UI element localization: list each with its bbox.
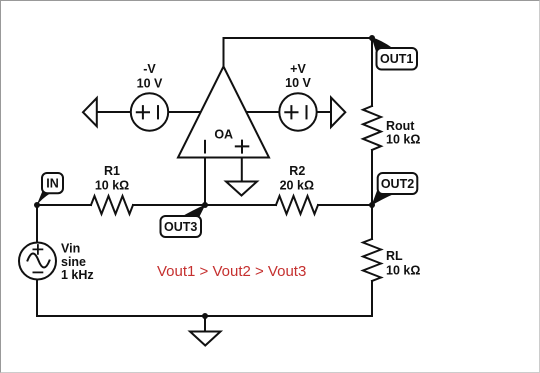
svg-text:10 V: 10 V [137, 77, 163, 91]
wire Rout to OUT2 node [371, 150, 373, 205]
wire Vin bottom lead [36, 280, 38, 317]
flag wedge OUT3 [180, 205, 206, 218]
op-amp OA triangle [178, 67, 269, 158]
label box OUT1 [377, 48, 418, 70]
Vin sine waveform [28, 254, 50, 268]
resistor R1 [91, 196, 133, 214]
resistor R2 [276, 196, 318, 214]
resistor RL [363, 239, 381, 281]
label box IN [42, 173, 63, 193]
label box OUT3 [161, 216, 202, 237]
node IN junction dot [34, 202, 40, 208]
svg-text:sine: sine [61, 255, 86, 269]
svg-text:10 kΩ: 10 kΩ [95, 178, 129, 192]
ground under op-amp [226, 182, 257, 196]
flag wedge OUT1 [372, 37, 395, 55]
Vin minus mark [33, 271, 42, 273]
sine source Vin [19, 243, 56, 280]
node OUT1 junction dot [369, 35, 375, 41]
wire Vin top lead to IN node [36, 205, 38, 243]
resistor Rout [363, 106, 381, 150]
svg-text:OUT1: OUT1 [380, 52, 413, 66]
-V source bar mark [157, 106, 159, 118]
supply arrow -V (left) [83, 98, 97, 126]
svg-text:-V: -V [143, 62, 156, 76]
wire IN node to R1 [37, 204, 91, 206]
wire non-inverting input pin to ground [241, 158, 243, 182]
svg-text:RL: RL [386, 249, 403, 263]
svg-text:Vout1 > Vout2 > Vout3: Vout1 > Vout2 > Vout3 [157, 263, 306, 280]
svg-text:IN: IN [46, 177, 59, 191]
svg-text:R1: R1 [104, 164, 120, 178]
svg-text:OUT3: OUT3 [164, 220, 197, 234]
wire right vertical OUT1 to Rout [371, 38, 373, 106]
svg-text:1 kHz: 1 kHz [61, 268, 94, 282]
wire stub bottom ground [204, 316, 206, 332]
flag wedge IN [37, 189, 51, 206]
+V source plus mark [285, 106, 297, 118]
svg-text:R2: R2 [289, 164, 305, 178]
wire op-amp output to top-right corner [224, 38, 373, 67]
wire RL to bottom rail [371, 281, 373, 316]
label box OUT2 [378, 173, 418, 194]
wire +V source to supply arrow [317, 111, 332, 113]
Vin plus mark [33, 245, 42, 254]
svg-text:Rout: Rout [386, 119, 415, 133]
svg-text:10 kΩ: 10 kΩ [386, 132, 420, 146]
svg-text:OA: OA [214, 127, 233, 141]
svg-text:10 V: 10 V [285, 76, 311, 90]
wire R2 to OUT2 node [318, 204, 372, 206]
-V source plus mark [137, 106, 149, 118]
svg-text:20 kΩ: 20 kΩ [280, 178, 314, 192]
svg-text:Vin: Vin [61, 242, 80, 256]
svg-text:10 kΩ: 10 kΩ [386, 263, 420, 277]
voltage source +V [279, 93, 316, 130]
op-amp inverting input mark [204, 141, 206, 153]
node OUT3 junction dot [202, 202, 208, 208]
wire op-amp right edge to +V source [242, 111, 280, 113]
op-amp non-inverting input mark [236, 141, 249, 153]
bottom ground junction dot [202, 313, 208, 319]
svg-text:+V: +V [290, 62, 306, 76]
+V source bar mark [306, 106, 308, 118]
wire bottom rail [37, 315, 372, 317]
wire inverting input pin to OUT3 node [204, 158, 206, 206]
wire R1 to OUT3 node [133, 204, 276, 206]
wire -V source to op-amp left edge [168, 111, 205, 113]
svg-text:OUT2: OUT2 [381, 177, 414, 191]
wire -V supply arrow to source [97, 111, 131, 113]
node OUT2 junction dot [369, 202, 375, 208]
wire OUT2 node to RL [371, 205, 373, 239]
ground bottom [190, 332, 221, 346]
supply arrow +V (right) [331, 98, 345, 128]
flag wedge OUT2 [372, 188, 396, 206]
voltage source -V [131, 93, 168, 130]
